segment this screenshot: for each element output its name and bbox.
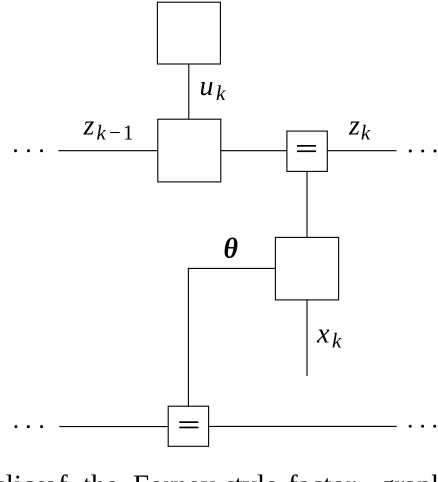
- svg-text:factor: factor: [288, 470, 356, 482]
- wire edge u_k: [188, 64, 190, 119]
- wire bottom right: [209, 425, 397, 427]
- dots right (middle row): [409, 150, 437, 153]
- factor node g (observation square): [275, 237, 338, 300]
- wire bottom left: [59, 426, 168, 428]
- label z_k: [348, 111, 371, 145]
- label theta: [224, 234, 239, 265]
- equality node = (theta, bottom): [168, 406, 208, 446]
- wire edge x_k: [306, 300, 308, 376]
- dots bottom right: [409, 425, 437, 428]
- svg-text:xk: xk: [316, 319, 342, 353]
- label u_k: [200, 71, 227, 105]
- dots left (middle row): [14, 149, 43, 152]
- svg-text:tyle: tyle: [235, 470, 279, 482]
- wire theta horizontal: [188, 267, 276, 269]
- wire f to equality node: [221, 150, 287, 152]
- svg-text:uk: uk: [200, 71, 227, 105]
- wire edge z_{k-1}: [58, 150, 157, 152]
- svg-text:graph: graph: [380, 470, 438, 482]
- svg-text:Forney-s: Forney-s: [133, 470, 236, 482]
- svg-text:of: of: [44, 470, 69, 482]
- wire edge z_k: [327, 150, 396, 152]
- caption text (cropped at bottom edge): [0, 470, 438, 482]
- svg-text:slice: slice: [0, 470, 48, 482]
- svg-text:the: the: [83, 470, 118, 482]
- svg-text:θ: θ: [224, 234, 239, 265]
- wire theta vertical: [187, 268, 189, 406]
- factor node N (top square, input prior): [157, 2, 220, 64]
- svg-text:zk: zk: [348, 111, 371, 145]
- label x_k: [316, 319, 342, 353]
- factor node f (state transition square): [158, 119, 221, 182]
- svg-text:zk−1: zk−1: [83, 111, 134, 145]
- equality node = (z branch): [287, 131, 327, 171]
- dots bottom left: [14, 425, 43, 428]
- label z_{k-1}: [83, 111, 134, 145]
- wire equality node down to observation node: [306, 171, 308, 237]
